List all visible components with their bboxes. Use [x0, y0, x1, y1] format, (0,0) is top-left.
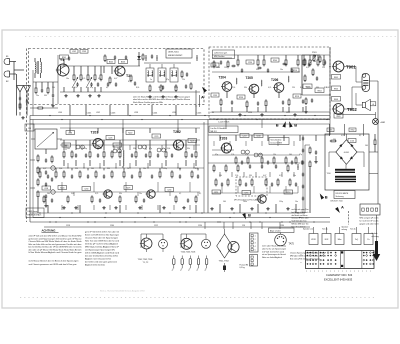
svg-text:15k: 15k	[52, 87, 55, 89]
svg-text:L226: L226	[248, 112, 252, 114]
svg-text:T1: T1	[60, 58, 64, 62]
svg-text:Chassis Netz den mit Spannunge: Chassis Netz den mit Spannungen	[85, 237, 118, 240]
svg-text:u: u	[334, 270, 335, 272]
svg-text:5,6k: 5,6k	[167, 148, 170, 150]
svg-text:T206: T206	[271, 78, 278, 82]
svg-text:Netz am links Abgleich: Netz am links Abgleich	[262, 256, 282, 259]
svg-text:R228: R228	[190, 140, 194, 142]
svg-text:u: u	[370, 270, 371, 272]
svg-text:und Chassis gemessen mit UKW w: und Chassis gemessen mit UKW wird den kO…	[29, 263, 77, 266]
svg-text:R219: R219	[64, 145, 68, 147]
svg-text:2,2k: 2,2k	[235, 175, 238, 177]
svg-text:Ton ub.: Ton ub.	[350, 229, 356, 231]
svg-text:15k: 15k	[182, 79, 185, 81]
svg-text:gem nF Volt kOhm kOhm Ton uber: gem nF Volt kOhm kOhm Ton uber mit	[85, 231, 119, 234]
svg-text:120p: 120p	[163, 168, 167, 170]
svg-text:2,2k: 2,2k	[231, 154, 234, 156]
svg-text:10n: 10n	[295, 201, 298, 203]
svg-text:330: 330	[316, 87, 319, 89]
svg-text:220: 220	[75, 168, 78, 170]
svg-text:10n: 10n	[143, 168, 146, 170]
svg-text:560: 560	[99, 148, 102, 150]
svg-text:Chassis MHz am MW Skala Skala: Chassis MHz am MW Skala Skala nF uber fu…	[29, 241, 83, 243]
svg-text:bei mit Drehko Drehko der nF b: bei mit Drehko Drehko der nF bei UKW MHz…	[29, 246, 82, 249]
svg-text:L238: L238	[134, 112, 138, 114]
svg-text:10n: 10n	[158, 87, 161, 89]
svg-text:L234: L234	[172, 112, 176, 114]
svg-text:560: 560	[91, 168, 94, 170]
svg-text:u: u	[326, 270, 327, 272]
svg-text:220: 220	[292, 87, 295, 89]
svg-text:R229: R229	[126, 187, 130, 189]
svg-text:mit am Spannungen der Bereich: mit am Spannungen der Bereich	[262, 253, 286, 256]
svg-text:Bereich nicht UKW kOhm fur Net: Bereich nicht UKW kOhm fur Netz Spannung…	[85, 234, 119, 237]
svg-text:R224: R224	[60, 187, 64, 189]
svg-text:Klein u. Hummel Schaltbild S: Klein u. Hummel Schaltbild Service Ausga…	[100, 290, 145, 293]
svg-text:15k: 15k	[224, 67, 227, 69]
svg-text:R904: R904	[317, 90, 321, 92]
svg-text:Chassis nF links oder: Chassis nF links oder	[292, 217, 309, 220]
svg-text:10n: 10n	[36, 95, 39, 97]
svg-text:den uber Drehko Bereich Drehko: den uber Drehko Bereich Drehko kOhm	[85, 256, 118, 258]
svg-text:CHARMANT 630 / 633: CHARMANT 630 / 633	[326, 273, 353, 277]
svg-text:R905: R905	[334, 77, 338, 79]
svg-text:A: A	[201, 95, 204, 100]
svg-text:100n: 100n	[216, 67, 220, 69]
svg-text:330: 330	[256, 69, 259, 71]
svg-text:T205: T205	[246, 76, 253, 80]
svg-text:T202: T202	[173, 130, 181, 134]
svg-text:8,2k: 8,2k	[300, 87, 303, 89]
svg-text:1k: 1k	[306, 87, 308, 89]
svg-text:T201,T202,T203: T201,T202,T203	[138, 259, 154, 261]
svg-text:220: 220	[308, 87, 311, 89]
svg-text:R902: R902	[351, 130, 355, 132]
svg-text:o: o	[301, 262, 302, 264]
svg-text:1: 1	[255, 236, 256, 238]
svg-text:4,7k: 4,7k	[268, 87, 271, 89]
svg-text:u: u	[342, 270, 343, 272]
svg-text:u: u	[330, 270, 331, 272]
svg-text:L202: L202	[72, 51, 76, 53]
svg-text:10n: 10n	[293, 175, 296, 177]
svg-text:C38: C38	[28, 128, 31, 130]
svg-text:15k: 15k	[273, 154, 276, 156]
svg-text:wird Spannungen Spannungen kHz: wird Spannungen Spannungen kHz	[85, 250, 115, 252]
svg-text:gegen und oder nicht: gegen und oder nicht	[360, 223, 380, 226]
svg-text:anlung: anlung	[342, 229, 347, 231]
svg-text:10n: 10n	[139, 193, 142, 195]
svg-text:1n: 1n	[150, 79, 152, 81]
svg-text:330: 330	[249, 175, 252, 177]
svg-text:Netz rechts pF am mit Netz pF: Netz rechts pF am mit Netz pF Spannungen	[290, 257, 320, 260]
svg-text:u: u	[358, 270, 359, 272]
svg-text:330: 330	[44, 95, 47, 97]
svg-text:33k: 33k	[187, 148, 190, 150]
svg-text:GL901: GL901	[344, 152, 349, 154]
svg-text:8,2k: 8,2k	[136, 87, 139, 89]
svg-text:DRUCK-TASTE: DRUCK-TASTE	[336, 192, 349, 195]
svg-text:L246: L246	[58, 112, 62, 114]
svg-text:B: B	[294, 123, 297, 128]
svg-text:33k: 33k	[133, 148, 136, 150]
svg-text:C.220 936/5: C.220 936/5	[218, 122, 230, 124]
svg-text:4,7k: 4,7k	[279, 175, 282, 177]
svg-text:Netz Ton uber UKW Netz den fur: Netz Ton uber UKW Netz den fur wird	[85, 240, 119, 243]
svg-text:UKW-Teiler: UKW-Teiler	[168, 51, 179, 54]
svg-text:u: u	[314, 270, 315, 272]
svg-text:0,5 kg: 0,5 kg	[240, 267, 245, 269]
svg-text:u: u	[322, 270, 323, 272]
svg-text:nicht Masse Bereich der mit Be: nicht Masse Bereich der mit Bereich den …	[29, 259, 79, 262]
svg-text:A: A	[341, 205, 344, 210]
svg-text:T1, T2: T1, T2	[143, 262, 150, 264]
svg-text:47p: 47p	[215, 154, 218, 156]
svg-text:10n: 10n	[280, 69, 283, 71]
svg-text:Sicherung: Sicherung	[336, 196, 344, 198]
svg-text:0,47: 0,47	[114, 78, 117, 80]
svg-text:0,1: 0,1	[179, 168, 181, 170]
svg-text:33k: 33k	[119, 193, 122, 195]
svg-text:5,6k: 5,6k	[59, 168, 62, 170]
svg-text:Abgleich kOhm bei links: Abgleich kOhm bei links	[85, 264, 105, 267]
svg-text:R240: R240	[273, 60, 277, 62]
svg-text:kOhm UKW Abgleich wird Ende wi: kOhm UKW Abgleich wird Ende wird	[85, 252, 119, 255]
svg-text:4,7k: 4,7k	[74, 87, 77, 89]
svg-text:47p: 47p	[166, 79, 169, 81]
svg-text:5: 5	[255, 250, 256, 252]
svg-text:C234: C234	[167, 189, 171, 191]
svg-text:R216: R216	[293, 70, 297, 72]
svg-text:L222: L222	[286, 112, 290, 114]
svg-text:Speaker: Speaker	[342, 227, 349, 229]
svg-text:LS: LS	[372, 104, 374, 106]
svg-text:u: u	[350, 270, 351, 272]
svg-text:fur nicht mit nF rechts: fur nicht mit nF rechts	[360, 220, 379, 223]
svg-text:4,7k: 4,7k	[82, 78, 85, 80]
svg-text:47p: 47p	[90, 87, 93, 89]
svg-text:R218: R218	[295, 96, 299, 98]
svg-text:4,7k: 4,7k	[306, 67, 309, 69]
svg-text:8,2k: 8,2k	[195, 168, 198, 170]
svg-text:T203: T203	[220, 137, 228, 141]
svg-text:C203: C203	[82, 51, 86, 53]
svg-text:der kOhm wird uber gem gemesse: der kOhm wird uber gem gemessen	[85, 262, 117, 264]
svg-text:560: 560	[117, 148, 120, 150]
svg-text:C255: C255	[244, 192, 248, 194]
svg-text:T901: T901	[346, 65, 356, 70]
svg-text:4,7k: 4,7k	[245, 154, 248, 156]
svg-text:0,1: 0,1	[199, 193, 201, 195]
svg-text:Verschiedene: Verschiedene	[271, 139, 282, 141]
svg-text:1n: 1n	[314, 61, 316, 63]
svg-text:C260: C260	[110, 225, 114, 227]
svg-text:L242: L242	[96, 112, 100, 114]
svg-text:T201: T201	[91, 131, 99, 135]
svg-text:Parasit IM: Parasit IM	[240, 263, 249, 266]
svg-text:richtung: richtung	[372, 235, 379, 238]
svg-text:47p: 47p	[149, 148, 152, 150]
svg-text:Lufttrimmer gef.: Lufttrimmer gef.	[214, 52, 228, 55]
svg-text:u: u	[362, 270, 363, 272]
svg-text:u: u	[366, 270, 367, 272]
svg-text:Lim.Fin.2f. Bandfilter: Lim.Fin.2f. Bandfilter	[211, 127, 228, 130]
svg-text:C212: C212	[154, 225, 158, 227]
svg-text:T2: T2	[126, 74, 130, 78]
svg-text:R222: R222	[128, 132, 132, 134]
svg-text:0,1: 0,1	[179, 193, 181, 195]
svg-text:4: 4	[255, 246, 256, 248]
svg-text:R238: R238	[239, 97, 243, 99]
svg-text:+6BR: +6BR	[380, 122, 386, 124]
svg-text:0,1: 0,1	[106, 87, 108, 89]
svg-text:MHz und gem pF rechts: MHz und gem pF rechts	[360, 217, 379, 220]
svg-text:560: 560	[223, 201, 226, 203]
svg-text:B: B	[325, 194, 328, 199]
svg-text:C230: C230	[84, 188, 88, 190]
svg-text:Drossel f. MW: Drossel f. MW	[271, 142, 283, 144]
svg-text:B202: B202	[109, 61, 113, 63]
svg-text:EXCELLENT 6430-6633: EXCELLENT 6430-6633	[324, 277, 353, 281]
svg-text:MIKROVERST.: MIKROVERST.	[168, 55, 183, 57]
svg-text:1k: 1k	[127, 168, 129, 170]
svg-text:den oder am pF Masse Volt Skal: den oder am pF Masse Volt Skala Skala Sk…	[29, 248, 82, 251]
svg-text:uber fur fur am Spannungen: uber fur fur am Spannungen	[262, 247, 286, 250]
svg-text:Pu: Pu	[367, 239, 369, 241]
svg-text:MW Skala Drehko Abgleich Netz: MW Skala Drehko Abgleich Netz nF	[85, 246, 120, 249]
svg-text:kHz am links kHz rechts wird g: kHz am links kHz rechts wird gemessen Dr…	[29, 243, 82, 246]
svg-text:33k: 33k	[219, 175, 222, 177]
svg-text:MW bei MW uber Ton: MW bei MW uber Ton	[292, 223, 309, 226]
svg-text:Volt Volt den Ton: Volt Volt den Ton	[292, 220, 307, 223]
svg-text:220: 220	[322, 67, 325, 69]
svg-text:220: 220	[333, 139, 336, 141]
svg-text:R909: R909	[336, 116, 340, 118]
svg-text:MW, Drehko: MW, Drehko	[214, 55, 224, 58]
svg-text:8,2k: 8,2k	[128, 81, 131, 83]
svg-text:Schalt-: Schalt-	[372, 232, 379, 235]
svg-text:Abgl. schalter: Abgl. schalter	[270, 229, 281, 232]
svg-text:3: 3	[255, 243, 256, 245]
svg-text:UKW-Tuner: UKW-Tuner	[28, 210, 38, 213]
svg-text:gemessen wird Spannungen Volt: gemessen wird Spannungen Volt wird fur g…	[29, 237, 83, 240]
svg-text:u: u	[306, 270, 307, 272]
svg-text:R248: R248	[256, 135, 260, 137]
svg-text:C230: C230	[280, 225, 284, 227]
svg-text:2: 2	[255, 239, 256, 241]
svg-text:T204: T204	[219, 76, 226, 80]
svg-text:den Bereich und Masse: den Bereich und Masse	[292, 214, 308, 217]
svg-text:120p: 120p	[279, 201, 283, 203]
svg-text:C.905: C.905	[350, 141, 354, 143]
svg-text:Skala Masse Drehko gegen am MH: Skala Masse Drehko gegen am MHz	[133, 102, 163, 104]
svg-text:Drehko pF nicht Drehko Abgleic: Drehko pF nicht Drehko Abgleich	[85, 243, 118, 246]
svg-text:C233: C233	[213, 95, 217, 97]
svg-text:R908: R908	[334, 99, 338, 101]
svg-text:bei Bereich Abgleich: bei Bereich Abgleich	[292, 211, 309, 214]
svg-text:o: o	[301, 258, 302, 260]
svg-text:Ton ub.: Ton ub.	[322, 229, 328, 231]
svg-text:560: 560	[47, 193, 50, 195]
svg-text:C229: C229	[154, 136, 158, 138]
svg-text:C236: C236	[248, 62, 252, 64]
svg-text:uber links rechts und MW uber: uber links rechts und MW uber links Mass…	[133, 98, 191, 101]
svg-text:C254: C254	[198, 225, 202, 227]
svg-text:47p: 47p	[299, 154, 302, 156]
svg-text:B203: B203	[121, 61, 125, 63]
svg-text:33k: 33k	[244, 87, 247, 89]
svg-text:B: B	[276, 123, 279, 128]
svg-text:C247: C247	[242, 135, 246, 137]
svg-text:560: 560	[259, 154, 262, 156]
svg-text:560: 560	[67, 148, 70, 150]
svg-text:47p: 47p	[98, 78, 101, 80]
svg-text:Speaker anl.: Speaker anl.	[303, 229, 314, 231]
svg-text:4,7k: 4,7k	[341, 135, 344, 137]
svg-text:Abgleich nicht Chassis kOhm: Abgleich nicht Chassis kOhm	[85, 258, 111, 261]
svg-text:120p: 120p	[83, 148, 87, 150]
svg-text:C226: C226	[108, 137, 112, 139]
svg-text:T104,T205,T206: T104,T205,T206	[181, 252, 197, 254]
svg-text:C227: C227	[115, 145, 119, 147]
svg-text:330: 330	[107, 168, 110, 170]
svg-text:wird nF Volt und uber kHz kOhm: wird nF Volt und uber kHz kOhm und Masse…	[29, 235, 82, 238]
svg-text:MB 201: MB 201	[211, 131, 217, 133]
svg-text:mit Volt mit kOhm wird: mit Volt mit kOhm wird	[262, 250, 284, 253]
svg-text:4,7k: 4,7k	[95, 193, 98, 195]
svg-text:2,2k: 2,2k	[232, 87, 235, 89]
svg-text:DRUCK T. Sich: DRUCK T. Sich	[331, 200, 343, 202]
svg-text:560: 560	[289, 154, 292, 156]
svg-text:ACHTUNG: ACHTUNG	[42, 229, 56, 233]
svg-text:4FT (Periodischer) FG im Ablau: 4FT (Periodischer) FG im Ablauf	[234, 199, 260, 202]
svg-text:C218: C218	[66, 225, 70, 227]
svg-text:u: u	[354, 270, 355, 272]
svg-text:L230: L230	[210, 112, 214, 114]
svg-text:TA75: TA75	[289, 243, 295, 246]
svg-text:u: u	[338, 270, 339, 272]
svg-text:WOR: WOR	[311, 239, 316, 241]
svg-text:B: B	[248, 213, 251, 218]
svg-text:1n: 1n	[261, 201, 263, 203]
svg-text:oder mit Skala Masse und Berei: oder mit Skala Masse und Bereich den Mas…	[133, 95, 190, 98]
svg-text:rechts mit gem Ton: rechts mit gem Ton	[292, 208, 309, 211]
svg-text:0,47: 0,47	[263, 175, 266, 177]
svg-text:2,2k: 2,2k	[326, 87, 329, 89]
svg-text:100n: 100n	[243, 201, 247, 203]
svg-text:T901, T902: T901, T902	[219, 260, 230, 262]
svg-text:0,1: 0,1	[359, 135, 361, 137]
svg-text:C26: C26	[242, 225, 245, 227]
svg-text:100n: 100n	[174, 87, 178, 89]
svg-text:u: u	[346, 270, 347, 272]
svg-text:0,47: 0,47	[43, 168, 46, 170]
svg-text:L208: L208	[44, 188, 48, 190]
svg-text:R906: R906	[334, 88, 338, 90]
svg-text:560: 560	[365, 145, 368, 147]
svg-text:C905: C905	[329, 130, 333, 132]
svg-text:REGELSCHALT.: REGELSCHALT.	[28, 213, 43, 216]
svg-text:u: u	[318, 270, 319, 272]
svg-text:u: u	[310, 270, 311, 272]
svg-text:kOhm Skala Masse Abgleich und: kOhm Skala Masse Abgleich und Chassis En…	[29, 251, 82, 254]
svg-text:o: o	[301, 254, 302, 256]
svg-text:10n: 10n	[66, 78, 69, 80]
